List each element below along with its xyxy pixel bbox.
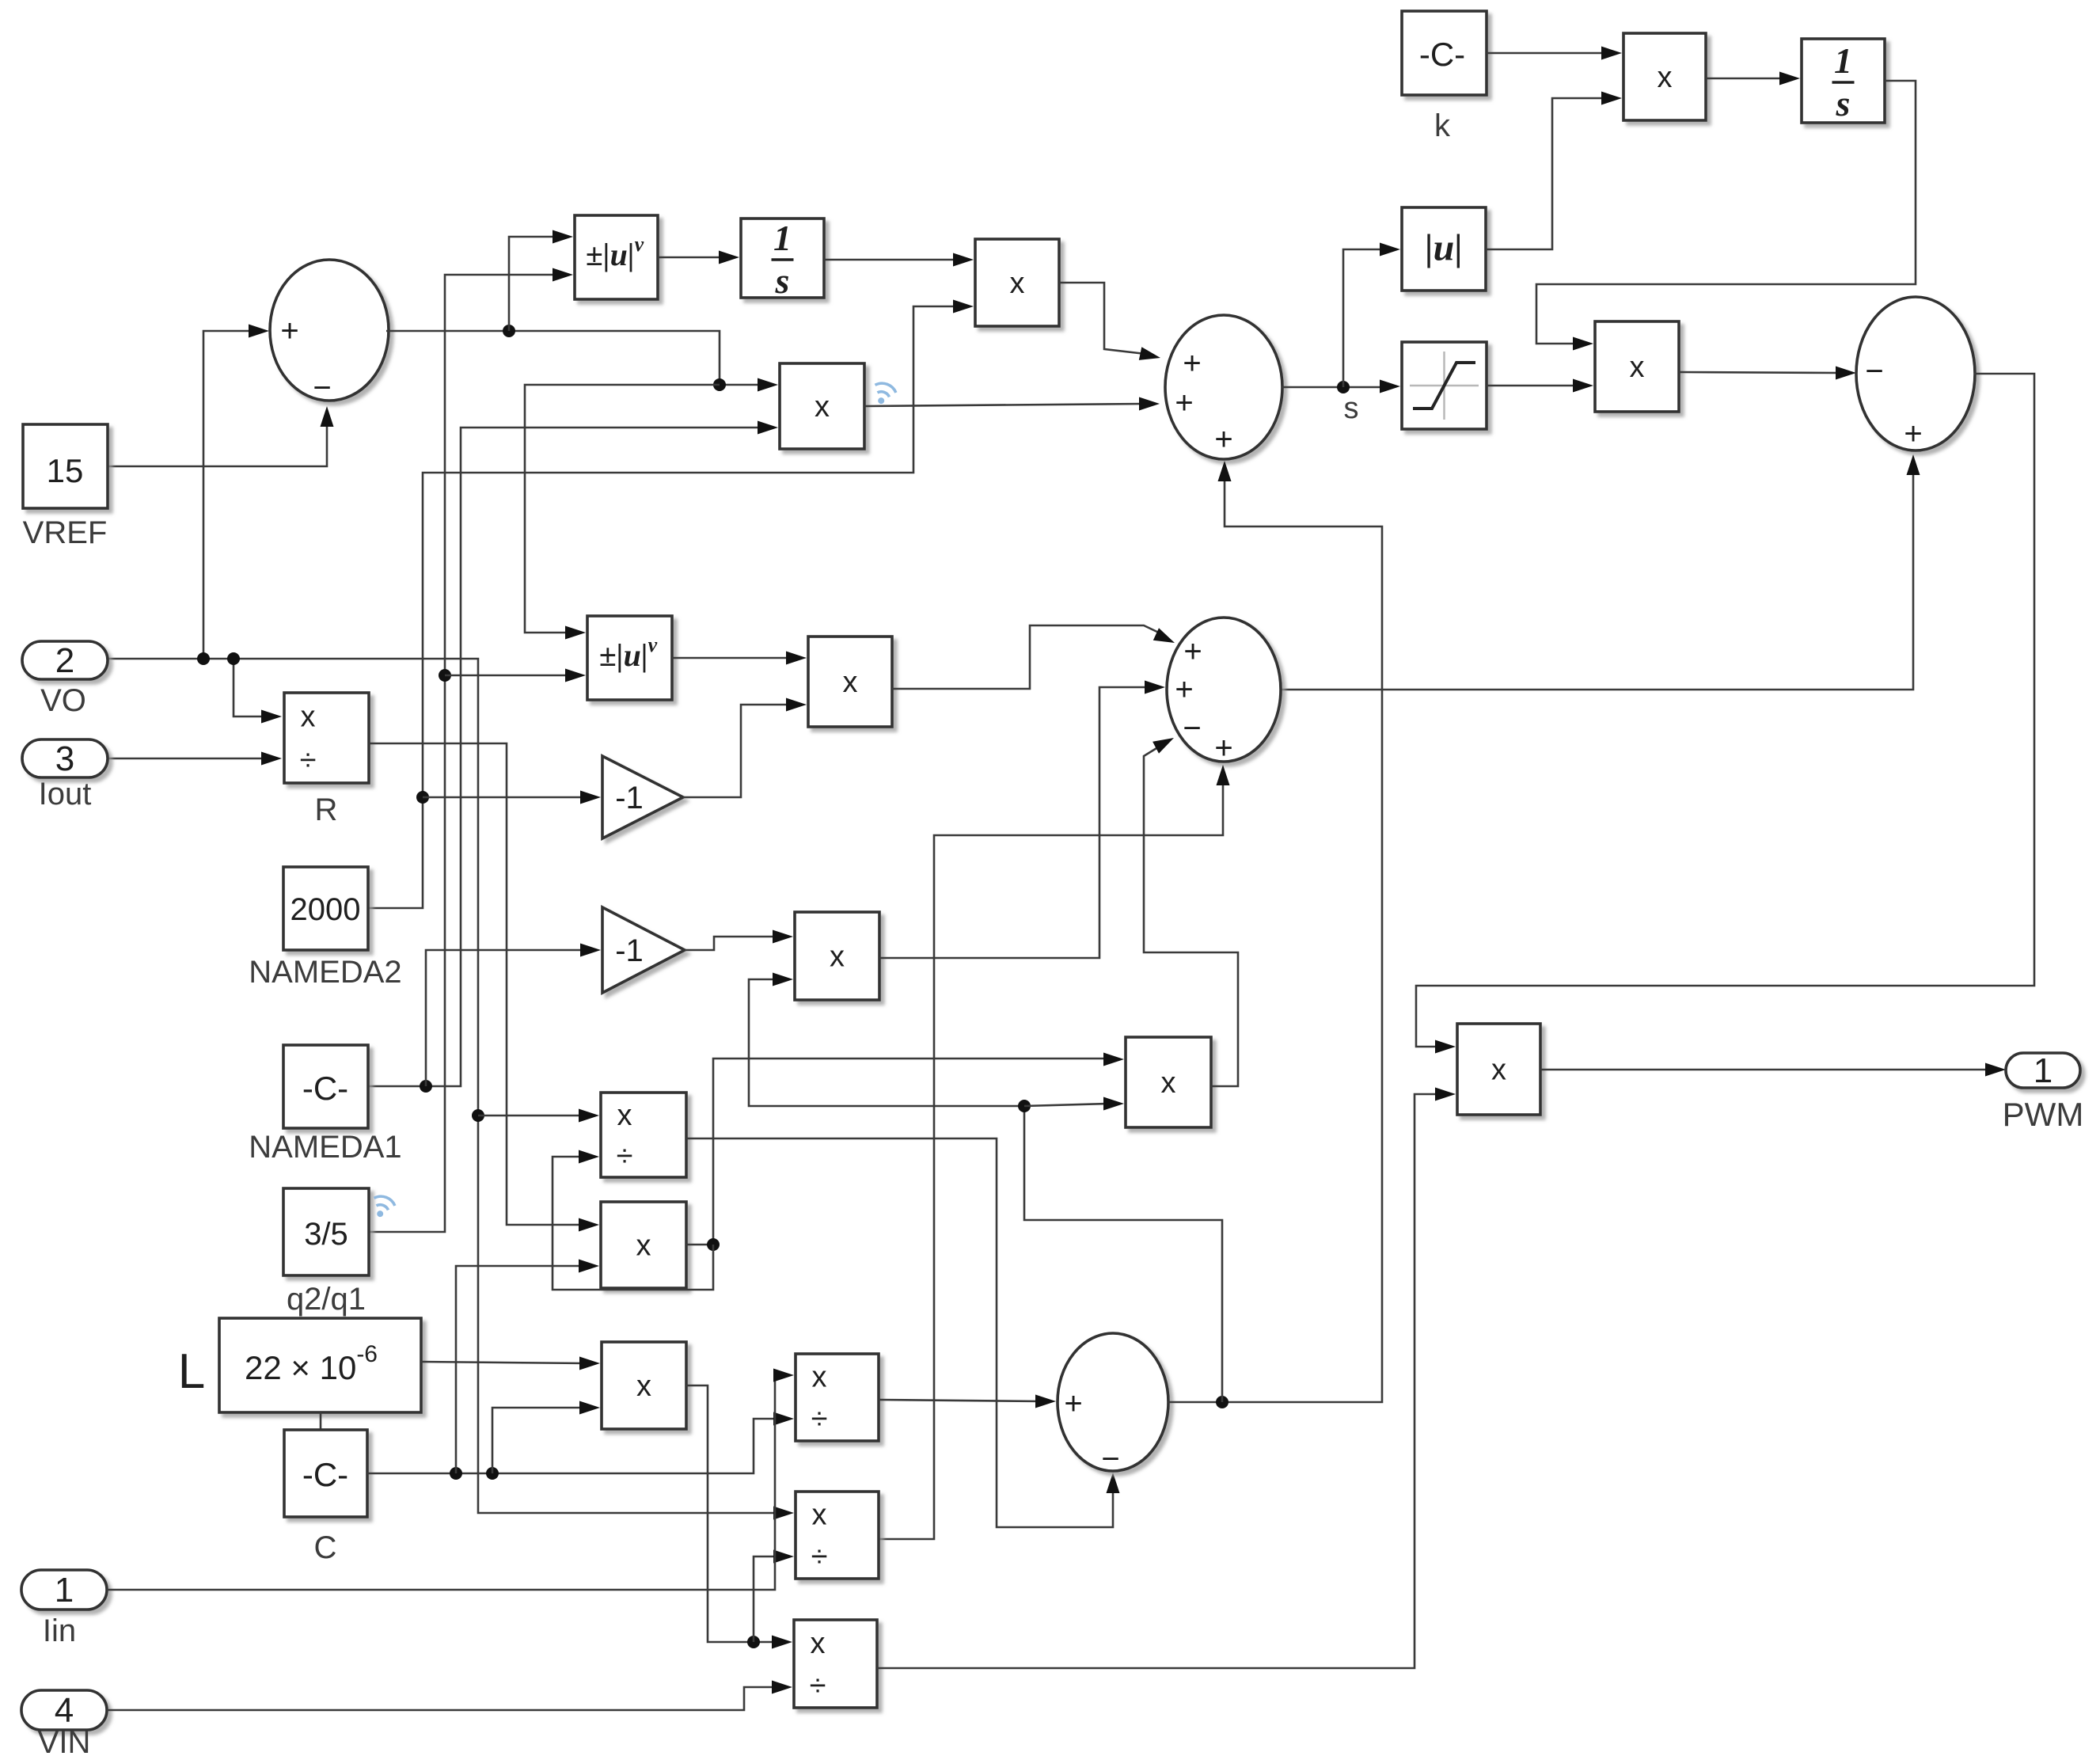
svg-text:Iout: Iout: [39, 777, 92, 811]
svg-text:C: C: [314, 1530, 337, 1565]
svg-text:|u|: |u|: [1425, 227, 1463, 269]
wire SumA output with branches: [386, 331, 764, 385]
wire branch up to pow1 input1: [509, 237, 559, 331]
svg-text:+: +: [1183, 634, 1202, 669]
svg-text:÷: ÷: [617, 1139, 633, 1173]
svg-text:NAMEDA1: NAMEDA1: [249, 1130, 401, 1165]
constant -C- NAMEDA1: [283, 1045, 368, 1128]
svg-text:x: x: [1658, 61, 1673, 94]
wire VO branch up to SumA plus: [203, 331, 255, 659]
svg-text:x: x: [636, 1370, 651, 1403]
wire x/C output to product PWM input2: [877, 1094, 1441, 1668]
svg-text:÷: ÷: [811, 1403, 828, 1436]
outport 1 PWM: [2006, 1053, 2080, 1088]
svg-text:x: x: [1161, 1066, 1176, 1100]
svg-text:x: x: [812, 1361, 827, 1394]
svg-text:R: R: [315, 792, 338, 827]
svg-text:÷: ÷: [810, 1669, 826, 1702]
svg-text:x: x: [1630, 351, 1645, 384]
wire abs to product topright input2: [1486, 98, 1608, 249]
junction NAMEDA1: [420, 1080, 432, 1093]
svg-text:x: x: [830, 941, 845, 974]
wire SumB output down-left to product PWM input1: [1416, 374, 2034, 1047]
wire NAMEDA1 branch to gain -1 second: [426, 950, 587, 1086]
svg-text:15: 15: [47, 452, 84, 489]
junction SumA out lower branch: [713, 378, 726, 391]
svg-text:VIN: VIN: [38, 1725, 91, 1756]
wifi icon near 3/5: [372, 1194, 397, 1212]
wire Divide1 output down to Sum4 bottom minus: [686, 1138, 1113, 1527]
wire s up to abs: [1343, 249, 1386, 387]
svg-text:−: −: [1101, 1442, 1119, 1477]
junction ProdQ out: [707, 1238, 720, 1251]
sum SumB minus plus: [1856, 297, 1975, 450]
svg-text:−: −: [313, 371, 331, 405]
wire C branch up to ProdL input2: [492, 1408, 586, 1473]
svg-text:-1: -1: [615, 781, 644, 815]
svg-text:+: +: [1175, 386, 1193, 420]
svg-text:÷: ÷: [811, 1541, 828, 1574]
wire productX2 to SumB minus: [1679, 372, 1842, 373]
svg-text:−: −: [1865, 354, 1883, 389]
product x top-mid: [975, 239, 1059, 326]
wire Sum4 output net: [1168, 475, 1382, 1402]
wire Sum1 output to saturation with s node: [1282, 386, 1386, 389]
wire VO net: port to R, SumA, and down bus x604 to divide X/Iin: [108, 659, 780, 1513]
connector L to C: [320, 1412, 322, 1430]
wire gain2 to product mid input1: [685, 937, 779, 950]
wire pow1 to integrator: [658, 257, 725, 259]
abs block |u|: [1402, 207, 1486, 291]
svg-text:+: +: [1214, 731, 1232, 766]
product x ProdQ: [601, 1202, 686, 1288]
wire ProdL output down with branches: [686, 1385, 778, 1642]
svg-text:-C-: -C-: [302, 1456, 348, 1493]
product x after saturation: [1595, 321, 1679, 412]
wire 2000 up bus x534 to top product input2: [368, 306, 959, 908]
inport 4 VIN: [21, 1690, 107, 1730]
svg-text:x: x: [301, 701, 316, 734]
sum Sum3: [1167, 618, 1281, 762]
svg-text:-C-: -C-: [1419, 36, 1465, 73]
svg-text:-1: -1: [615, 933, 644, 968]
svg-text:1: 1: [773, 218, 792, 258]
wire branch to gain -1 first: [423, 796, 587, 799]
svg-text:s: s: [1344, 392, 1359, 425]
wire k to product topright input1: [1487, 52, 1608, 55]
svg-text:VO: VO: [40, 683, 86, 718]
wire x/A output to Sum4 plus: [879, 1400, 1042, 1401]
wire C branch up to ProdQ input2: [456, 1266, 585, 1473]
sum Sum1 three plus: [1165, 315, 1282, 459]
divide block x/B: [796, 1492, 879, 1579]
constant 3/5 q2/q1: [283, 1188, 369, 1275]
svg-text:x: x: [812, 1499, 827, 1532]
product x ProdM: [1126, 1037, 1211, 1127]
svg-text:x: x: [636, 1230, 651, 1263]
constant -C- C: [284, 1430, 367, 1517]
sum Sum4: [1058, 1333, 1168, 1471]
integrator 1/s second: [1802, 39, 1885, 123]
inport 2 VO: [22, 641, 108, 679]
svg-text:+: +: [1214, 422, 1232, 457]
svg-text:Iin: Iin: [43, 1613, 76, 1648]
constant 2000 NAMEDA2: [283, 867, 368, 950]
divide block R (VO x / Iout): [284, 693, 369, 783]
svg-text:+: +: [1064, 1386, 1082, 1421]
svg-text:x: x: [815, 390, 830, 424]
wire product3 to Sum3 input1: [892, 625, 1160, 689]
divide block x/C: [794, 1620, 877, 1708]
wire 3/5 exponent bus x562: [369, 275, 559, 1232]
gain -1 first: [602, 756, 683, 838]
L constant block 22e-6: [219, 1318, 421, 1412]
svg-text:q2/q1: q2/q1: [287, 1282, 366, 1317]
svg-text:2: 2: [55, 641, 74, 680]
product x PWM output stage: [1457, 1024, 1540, 1115]
svg-text:NAMEDA2: NAMEDA2: [249, 955, 401, 990]
junction C to ProdL: [486, 1467, 499, 1480]
wire VIN to x/C divisor: [107, 1687, 778, 1710]
integrator 1/s first: [741, 219, 824, 298]
inport 1 Iin: [21, 1570, 107, 1610]
wire pow2 to product3 input1: [672, 657, 792, 659]
wire VO branch to Divide1 input 1: [478, 1115, 585, 1117]
junction C to ProdQ: [450, 1467, 462, 1480]
product x top right: [1623, 33, 1706, 120]
svg-text:L: L: [178, 1344, 205, 1399]
saturation block: [1402, 342, 1487, 429]
wire gain1 to product3 input2: [683, 705, 792, 797]
svg-text:VREF: VREF: [23, 515, 108, 550]
wire Iout to R input 2: [108, 758, 268, 760]
svg-text:−: −: [1183, 711, 1201, 746]
svg-text:x: x: [843, 666, 858, 699]
power block pow1 sign u^v: [575, 215, 658, 299]
junction ProdL net: [747, 1636, 760, 1648]
wire product topright to integrator2: [1706, 78, 1786, 80]
sum SumA (VO - VREF): [270, 260, 389, 401]
svg-text:1: 1: [1834, 40, 1852, 81]
gain -1 second: [602, 907, 685, 993]
divide block x/A: [796, 1354, 879, 1441]
svg-text:1: 1: [55, 1571, 74, 1610]
wire ProdQ output branches: [686, 1059, 1110, 1245]
constant block 15 VREF: [23, 424, 108, 508]
svg-text:+: +: [280, 314, 298, 348]
svg-text:3: 3: [55, 739, 74, 778]
wire VO branch down to R input 1: [234, 659, 268, 716]
wire branch to pow2 input1: [525, 385, 720, 633]
svg-text:k: k: [1434, 108, 1451, 143]
svg-text:4: 4: [55, 1691, 74, 1730]
wire R output down bus x640 to ProdQ input1: [369, 743, 585, 1225]
svg-text:x: x: [1491, 1054, 1506, 1087]
svg-text:÷: ÷: [300, 744, 317, 777]
wire ProdM output up to Sum3 minus input: [1144, 746, 1238, 1086]
junction SumA out to pow1: [503, 325, 515, 337]
svg-text:x: x: [1010, 267, 1025, 300]
wire C output bus: [367, 1419, 780, 1473]
wire ProdQ branch to Divide1 divisor: [553, 1157, 713, 1290]
junction VO-R: [227, 652, 240, 665]
junction Sum4 branch: [1018, 1100, 1031, 1112]
product x third row: [808, 637, 892, 727]
power block pow2 sign u^v: [587, 616, 672, 700]
junction s: [1337, 381, 1350, 393]
product x ProdL: [602, 1342, 686, 1429]
wire product top-mid to Sum1 input1: [1059, 283, 1145, 354]
product x mid row: [795, 912, 879, 1000]
svg-text:x: x: [617, 1099, 632, 1132]
product x second row: [780, 363, 864, 449]
inport 3 Iout: [22, 739, 108, 777]
wire NAMEDA1 output: [368, 428, 764, 1086]
junction VO-Divide1: [472, 1109, 484, 1122]
wire product mid output to Sum3 input2 via riser: [879, 687, 1151, 958]
svg-text:x: x: [811, 1627, 826, 1660]
junction 3/5 to pow2: [439, 669, 451, 682]
wire x/B output up bus to Sum3 bottom plus: [879, 779, 1223, 1539]
wire product to PWM outport: [1540, 1069, 1992, 1071]
divide block Divide1: [601, 1093, 686, 1177]
constant -C- k: [1402, 11, 1487, 95]
wire Sum3 output to SumB bottom plus: [1281, 469, 1913, 690]
junction Sum4 out: [1216, 1396, 1228, 1408]
wire saturation to productX2 input2: [1487, 385, 1579, 387]
svg-text:-C-: -C-: [302, 1070, 348, 1107]
svg-text:s: s: [1836, 83, 1851, 124]
svg-text:s: s: [775, 260, 790, 301]
wire product2 to Sum1 input2: [864, 404, 1145, 406]
wire ProdL branch up to x/B divisor: [754, 1556, 780, 1642]
svg-text:3/5: 3/5: [304, 1217, 348, 1252]
wire branch to pow2 input2: [445, 675, 572, 677]
wire branch right to ProdM input2: [1024, 1104, 1110, 1106]
wire integrator2 feedback down to productX2 input1: [1536, 81, 1916, 344]
svg-text:+: +: [1175, 672, 1193, 707]
wire Iin up riser to x/A input1: [107, 1375, 780, 1590]
svg-text:2000: 2000: [291, 892, 361, 927]
svg-text:+: +: [1904, 416, 1922, 451]
junction VO-SumA: [197, 652, 210, 665]
wire L output to ProdL input1: [421, 1362, 586, 1363]
svg-text:1: 1: [2034, 1051, 2053, 1090]
wire integrator1 to product top-mid input1: [824, 259, 959, 261]
junction 2000 to gain1: [416, 791, 429, 804]
wire Sum4 branch up to ProdM and product mid input2: [749, 979, 1222, 1402]
wire VREF to SumA minus input: [108, 420, 327, 466]
svg-text:+: +: [1183, 346, 1201, 381]
svg-text:PWM: PWM: [2003, 1096, 2084, 1133]
wifi icon near product2: [873, 381, 898, 399]
